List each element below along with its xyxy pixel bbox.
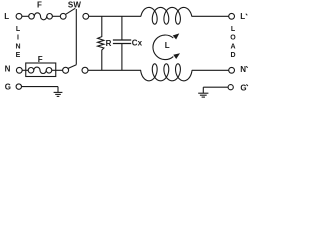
svg-text:L: L <box>4 12 9 21</box>
svg-text:L: L <box>240 12 245 21</box>
svg-text:F: F <box>38 55 43 64</box>
svg-text:I: I <box>17 35 19 42</box>
svg-text:N: N <box>15 43 20 50</box>
svg-text:F: F <box>37 1 42 10</box>
svg-text:O: O <box>230 35 236 42</box>
svg-text:D: D <box>230 52 235 59</box>
svg-text:L: L <box>231 26 236 33</box>
svg-text:L: L <box>16 26 21 33</box>
svg-text:G: G <box>5 83 11 92</box>
svg-text:N: N <box>240 65 246 74</box>
svg-text:G: G <box>240 83 246 92</box>
svg-text:L: L <box>165 41 170 50</box>
svg-text:Cx: Cx <box>132 39 143 48</box>
svg-text:R: R <box>106 39 112 48</box>
svg-text:N: N <box>5 64 11 73</box>
svg-text:A: A <box>230 43 235 50</box>
svg-text:SW: SW <box>68 1 82 10</box>
svg-text:E: E <box>16 52 21 59</box>
